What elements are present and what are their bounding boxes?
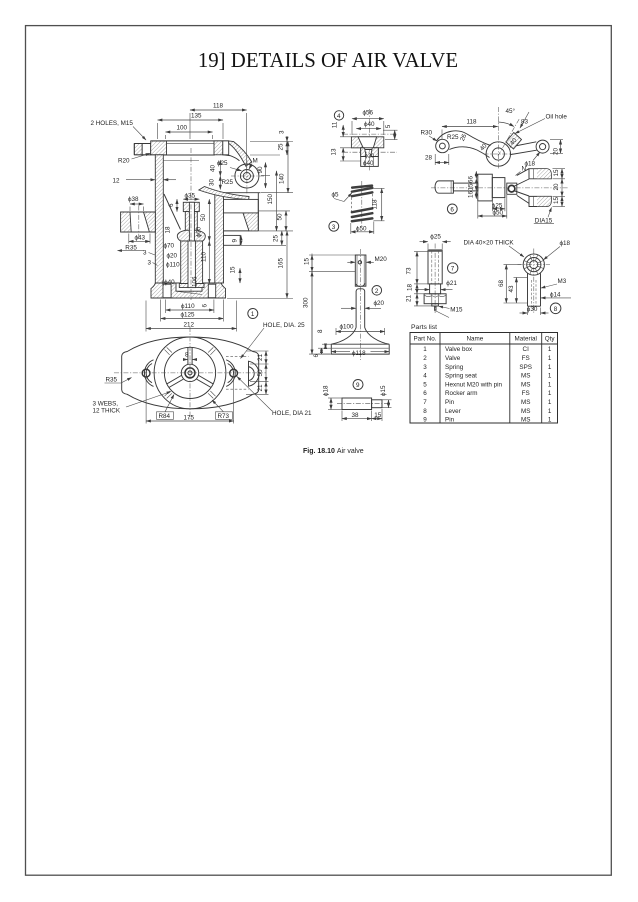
svg-text:20: 20 <box>553 147 560 155</box>
svg-text:30: 30 <box>209 178 216 186</box>
left lobe arcs <box>146 364 152 383</box>
svg-text:6: 6 <box>202 304 209 308</box>
svg-text:13: 13 <box>331 148 338 156</box>
rod <box>428 250 442 284</box>
dim phi50 <box>351 231 374 233</box>
handle <box>435 181 453 193</box>
svg-text:16: 16 <box>467 190 474 198</box>
svg-text:40: 40 <box>479 142 489 152</box>
svg-text:43: 43 <box>508 285 515 293</box>
flange rim top edge <box>151 140 229 142</box>
flat under boss <box>224 192 261 194</box>
lever centerline <box>431 187 568 189</box>
svg-text:M20: M20 <box>375 256 388 263</box>
svg-text:Spring seat: Spring seat <box>445 373 477 380</box>
right arm rib hatched <box>243 213 258 231</box>
skirt outline <box>361 148 379 167</box>
bottom extension lines <box>145 301 147 332</box>
S-curve passage wall hatched <box>199 187 249 200</box>
bolt slot right <box>223 141 229 155</box>
svg-text:15: 15 <box>374 412 382 419</box>
svg-text:300: 300 <box>303 297 310 308</box>
svg-text:ϕ18: ϕ18 <box>323 385 330 396</box>
svg-text:50: 50 <box>200 213 207 221</box>
svg-text:15: 15 <box>467 183 474 191</box>
svg-text:165: 165 <box>278 257 285 268</box>
dim 118 <box>190 109 247 111</box>
svg-text:Qty: Qty <box>545 336 556 343</box>
dim phi56 <box>352 118 384 120</box>
svg-text:3: 3 <box>279 130 286 134</box>
svg-text:68: 68 <box>498 279 505 287</box>
funnel wall right hatched <box>371 148 379 157</box>
break dashed edges <box>351 198 353 212</box>
interior guide collar hatched <box>183 202 199 211</box>
svg-text:ϕ30: ϕ30 <box>527 306 538 313</box>
svg-text:ϕ14: ϕ14 <box>550 291 561 298</box>
svg-text:50: 50 <box>257 369 264 377</box>
svg-text:5: 5 <box>385 124 392 128</box>
svg-text:118: 118 <box>372 199 379 210</box>
interior stem slot <box>189 202 194 241</box>
dim phi25 lever <box>492 208 505 210</box>
svg-text:21: 21 <box>406 294 413 302</box>
svg-text:MS: MS <box>521 417 530 424</box>
svg-text:118: 118 <box>467 119 478 126</box>
spring centerline <box>361 181 363 228</box>
svg-text:MS: MS <box>521 373 530 380</box>
side boss mid circle <box>240 170 253 183</box>
svg-text:ϕ38: ϕ38 <box>128 196 139 203</box>
flange underside right slope <box>223 155 240 161</box>
svg-text:3: 3 <box>332 224 336 231</box>
funnel passage white <box>130 212 149 232</box>
split pin <box>434 306 436 311</box>
svg-text:HOLE, DIA 21: HOLE, DIA 21 <box>272 410 312 417</box>
svg-text:3: 3 <box>148 260 152 267</box>
svg-text:R73: R73 <box>218 413 230 420</box>
svg-text:Material: Material <box>514 336 536 343</box>
dim phi25 line <box>230 168 242 171</box>
left bolt hole <box>142 369 150 377</box>
pin body <box>342 398 372 410</box>
hub circle <box>181 364 198 381</box>
svg-text:R30: R30 <box>421 130 433 137</box>
svg-text:7: 7 <box>423 399 427 406</box>
balloon 6 <box>447 204 457 214</box>
svg-text:ϕ50: ϕ50 <box>493 210 504 217</box>
svg-text:66: 66 <box>467 175 474 183</box>
stem centerline <box>190 148 192 300</box>
svg-text:12 THICK: 12 THICK <box>93 408 121 415</box>
boss centerlines <box>231 175 264 177</box>
rib marks <box>210 391 215 396</box>
svg-text:ϕ118: ϕ118 <box>352 350 366 357</box>
svg-text:100: 100 <box>177 125 188 132</box>
rod chamfer band <box>428 250 442 252</box>
svg-text:3: 3 <box>423 364 427 371</box>
fork lower prong <box>517 195 529 203</box>
svg-text:ϕ5: ϕ5 <box>332 192 340 199</box>
svg-text:18: 18 <box>406 283 413 291</box>
svg-text:8: 8 <box>423 408 427 415</box>
svg-text:R25: R25 <box>447 134 459 141</box>
fork upper bar <box>529 169 551 179</box>
right arm white band <box>224 199 259 213</box>
hidden edge dashes <box>226 356 249 358</box>
top flange left lip hatched <box>134 144 142 155</box>
top plate hatched <box>351 137 383 148</box>
svg-text:ϕ125: ϕ125 <box>181 312 196 319</box>
svg-text:90: 90 <box>257 166 264 174</box>
skirt hole lines <box>365 157 367 167</box>
dim phi50 lever <box>478 215 507 217</box>
balloon 3 <box>329 221 339 231</box>
top flange left raised hatched <box>151 141 167 155</box>
bottom coils <box>352 208 372 221</box>
funnel diagonal <box>164 194 181 230</box>
right link top <box>510 142 537 147</box>
flange seat line <box>163 160 199 162</box>
svg-text:ϕ60: ϕ60 <box>196 226 203 237</box>
dims 21 50 21 <box>265 351 267 364</box>
bottom dim phi125 <box>161 318 224 320</box>
left boss hole <box>440 143 446 149</box>
balloon 4 <box>334 111 343 120</box>
valve centerline <box>359 249 361 360</box>
svg-text:Hexnut M20 with pin: Hexnut M20 with pin <box>445 381 503 388</box>
svg-text:ϕ40: ϕ40 <box>363 160 374 167</box>
svg-text:110: 110 <box>200 251 207 262</box>
seat centerline horizontal lower <box>343 151 397 153</box>
svg-text:175: 175 <box>184 414 195 421</box>
right bolt hole <box>230 369 238 377</box>
disc centerlines <box>518 264 551 266</box>
outer ring circle <box>154 337 226 409</box>
svg-text:ϕ50: ϕ50 <box>356 225 367 232</box>
bolt slot left <box>142 144 151 155</box>
svg-text:6: 6 <box>168 203 175 207</box>
top flange right raised hatched <box>214 141 223 155</box>
rod centerline <box>434 244 436 314</box>
boss horizontal centerline <box>484 153 514 155</box>
flange rim underside <box>163 154 214 156</box>
svg-text:15: 15 <box>553 196 560 204</box>
nut tip <box>432 304 439 306</box>
valve lower stem <box>356 289 365 328</box>
bottom flange hatched <box>151 283 226 298</box>
flange outline pointed oval <box>122 337 259 409</box>
svg-text:M3: M3 <box>558 278 567 285</box>
right boss hole <box>540 144 546 150</box>
disc spokes <box>524 255 543 274</box>
right boss outer <box>536 140 549 153</box>
interior guide lower tube hatched <box>181 241 203 284</box>
svg-text:Fig. 18.10 Air valve: Fig. 18.10 Air valve <box>303 448 364 455</box>
svg-text:5: 5 <box>423 381 427 388</box>
svg-text:ϕ43: ϕ43 <box>135 235 146 242</box>
svg-text:1: 1 <box>548 399 552 406</box>
plan centerlines <box>114 372 266 374</box>
valve base <box>331 344 389 354</box>
side boss tapped hole <box>243 172 250 179</box>
svg-text:ϕ56: ϕ56 <box>363 109 374 116</box>
svg-text:15: 15 <box>230 266 237 274</box>
45 deg line <box>498 119 520 157</box>
svg-text:118: 118 <box>213 103 224 110</box>
dim 100 <box>166 131 213 133</box>
neck <box>430 284 441 294</box>
svg-text:Rocker arm: Rocker arm <box>445 390 478 397</box>
svg-text:ϕ40: ϕ40 <box>364 121 375 128</box>
svg-text:M: M <box>253 158 258 165</box>
fork upper bar hatch <box>537 169 551 178</box>
flange left face <box>133 144 135 155</box>
seat centerline horizontal upper <box>343 133 397 135</box>
svg-text:50: 50 <box>277 213 284 221</box>
svg-text:ϕ100: ϕ100 <box>340 324 355 331</box>
valve stem threaded top <box>355 255 366 286</box>
svg-text:9: 9 <box>423 417 427 424</box>
disc circles <box>523 254 544 275</box>
svg-text:6: 6 <box>423 390 427 397</box>
svg-text:Spring: Spring <box>445 364 464 371</box>
boss vertical centerline <box>497 107 499 169</box>
stem pin hole <box>358 261 361 264</box>
hex nut <box>424 294 446 304</box>
svg-text:7: 7 <box>451 266 455 273</box>
svg-text:15: 15 <box>553 169 560 177</box>
svg-text:R35: R35 <box>125 244 137 251</box>
svg-text:ϕ35: ϕ35 <box>185 192 196 199</box>
45 deg arm <box>506 133 522 150</box>
dim phi118 <box>331 351 350 353</box>
svg-text:MS: MS <box>521 399 530 406</box>
svg-text:ϕ21: ϕ21 <box>446 280 457 287</box>
svg-text:Pin: Pin <box>445 417 455 424</box>
svg-text:ϕ25: ϕ25 <box>217 160 228 167</box>
svg-text:Part No.: Part No. <box>413 336 436 343</box>
right link bottom <box>510 150 536 154</box>
svg-text:DIA 40×20 THICK: DIA 40×20 THICK <box>464 240 515 247</box>
svg-text:CI: CI <box>523 346 530 353</box>
svg-text:ϕ20: ϕ20 <box>167 252 178 259</box>
left boss outer <box>436 139 449 152</box>
svg-text:28: 28 <box>425 155 433 162</box>
svg-text:1: 1 <box>548 408 552 415</box>
right arm face line <box>257 193 259 231</box>
bottom dim 212 <box>146 328 237 330</box>
svg-text:38: 38 <box>352 412 360 419</box>
web spokes <box>187 348 189 365</box>
svg-text:9: 9 <box>356 382 360 389</box>
svg-text:FS: FS <box>522 355 530 362</box>
svg-text:ϕ70: ϕ70 <box>164 243 175 250</box>
svg-text:12: 12 <box>113 178 121 185</box>
svg-text:25: 25 <box>273 234 280 242</box>
svg-text:1: 1 <box>548 355 552 362</box>
mid boss section <box>492 178 505 198</box>
svg-text:Valve box: Valve box <box>445 346 473 353</box>
flange left top edge <box>134 143 150 145</box>
svg-text:Parts list: Parts list <box>411 324 437 331</box>
svg-text:R20: R20 <box>118 158 130 165</box>
svg-text:1: 1 <box>548 381 552 388</box>
svg-text:6: 6 <box>450 206 454 213</box>
svg-text:1: 1 <box>548 364 552 371</box>
svg-text:21: 21 <box>257 353 264 361</box>
funnel wall left hatched <box>361 148 367 157</box>
center boss outer <box>486 142 510 166</box>
svg-text:73: 73 <box>406 267 413 275</box>
center hole <box>185 368 195 378</box>
svg-text:1: 1 <box>548 390 552 397</box>
fork inner verticals <box>533 169 535 179</box>
svg-text:Lever: Lever <box>445 408 461 415</box>
svg-text:150: 150 <box>267 193 274 204</box>
svg-text:4: 4 <box>423 373 427 380</box>
balloon 1 <box>248 309 258 319</box>
svg-text:ϕ110: ϕ110 <box>181 303 195 310</box>
svg-text:3 WEBS,: 3 WEBS, <box>93 401 119 408</box>
svg-text:11: 11 <box>332 121 339 128</box>
svg-text:140: 140 <box>279 173 286 184</box>
stem <box>527 273 529 306</box>
pin centerline <box>337 403 387 405</box>
svg-text:15: 15 <box>304 257 311 265</box>
interior guide tube hatched <box>185 212 197 231</box>
svg-text:2: 2 <box>423 355 427 362</box>
svg-text:2 HOLES, M15: 2 HOLES, M15 <box>91 120 134 127</box>
center boss hole <box>492 148 504 160</box>
bolt ring circle <box>164 347 215 398</box>
svg-text:Name: Name <box>467 336 484 343</box>
neck <box>453 183 477 191</box>
svg-text:(ϕ40: (ϕ40 <box>162 279 175 286</box>
left funnel block hatched <box>121 212 156 232</box>
svg-text:212: 212 <box>184 322 195 329</box>
seat centerline vertical <box>369 109 371 171</box>
balloon 9 <box>353 380 363 390</box>
balloon 7 <box>448 263 458 273</box>
hidden M3 hole dashed <box>531 280 533 306</box>
flange rim inner edge <box>167 143 215 145</box>
svg-text:R25: R25 <box>222 179 234 186</box>
svg-text:1: 1 <box>548 417 552 424</box>
svg-text:HOLE, DIA. 25: HOLE, DIA. 25 <box>263 322 305 329</box>
seat disc center <box>176 283 202 291</box>
svg-text:25: 25 <box>278 143 285 151</box>
balloon 8 <box>550 303 561 314</box>
left dim column valve <box>311 254 313 355</box>
flange underside left <box>134 154 155 156</box>
svg-text:21: 21 <box>257 384 264 392</box>
interior guide seat plate hatched <box>179 284 204 288</box>
svg-text:ϕ25: ϕ25 <box>430 233 441 240</box>
svg-text:ϕ15: ϕ15 <box>380 385 387 396</box>
svg-text:9: 9 <box>232 239 239 243</box>
svg-text:FS: FS <box>522 390 530 397</box>
fork upper prong <box>517 169 529 176</box>
svg-text:M15: M15 <box>450 306 463 313</box>
right wall hatched <box>215 193 224 283</box>
bottom dim phi110 <box>166 309 214 311</box>
fork lower bar <box>529 196 551 206</box>
arm bottom edge <box>449 147 489 158</box>
svg-text:106: 106 <box>192 276 199 287</box>
svg-text:ϕ110: ϕ110 <box>166 262 180 269</box>
svg-text:1: 1 <box>251 311 255 318</box>
pin hole ring <box>507 183 517 194</box>
svg-text:MS: MS <box>521 408 530 415</box>
svg-text:2: 2 <box>375 288 379 295</box>
dim 175 <box>146 420 234 422</box>
svg-text:Pin: Pin <box>445 399 455 406</box>
right lobe arcs <box>228 364 234 383</box>
dim phi40 top <box>356 128 381 130</box>
svg-text:3: 3 <box>143 249 147 256</box>
svg-text:135: 135 <box>191 113 202 120</box>
dim 15 <box>372 418 382 420</box>
arm top edge <box>437 131 491 146</box>
top coils <box>352 186 372 197</box>
dim 135 <box>158 119 223 121</box>
right side section arcs <box>249 361 259 386</box>
flange right neck hatched <box>229 141 252 166</box>
svg-text:45°: 45° <box>506 107 516 115</box>
bottom bolt slot left <box>163 284 171 298</box>
funnel cup white <box>358 137 377 150</box>
svg-text:8: 8 <box>317 329 324 333</box>
dim 118 rocker <box>442 126 498 128</box>
svg-text:ϕ18: ϕ18 <box>525 161 536 168</box>
svg-text:18: 18 <box>165 226 172 234</box>
svg-text:ϕ18: ϕ18 <box>560 240 571 247</box>
svg-text:ϕ20: ϕ20 <box>365 154 374 160</box>
right extension lines <box>250 141 293 143</box>
svg-text:Valve: Valve <box>445 355 461 362</box>
fork lower bar hatch <box>537 197 551 206</box>
dim phi100 <box>336 331 385 333</box>
svg-text:20: 20 <box>553 183 560 191</box>
svg-text:Oil hole: Oil hole <box>546 114 568 121</box>
page title <box>0 49 638 73</box>
svg-text:8: 8 <box>185 351 189 358</box>
valve head flare <box>331 328 389 345</box>
left wall hatched <box>155 155 163 283</box>
svg-text:8: 8 <box>554 306 558 313</box>
dim 38 <box>342 418 372 420</box>
svg-text:ϕ25: ϕ25 <box>492 202 503 209</box>
svg-text:1: 1 <box>423 346 427 353</box>
svg-text:SPS: SPS <box>519 364 532 371</box>
thread dashed lines <box>431 251 433 284</box>
balloon 2 <box>372 286 382 296</box>
svg-text:1: 1 <box>548 346 552 353</box>
funnel centerline <box>138 206 140 240</box>
svg-text:N: N <box>522 166 527 173</box>
right lower band <box>224 235 241 245</box>
pin step <box>372 400 382 408</box>
svg-text:1: 1 <box>548 373 552 380</box>
block <box>478 174 493 201</box>
svg-text:4: 4 <box>337 113 341 120</box>
45 deg arc <box>498 122 514 127</box>
svg-text:R84: R84 <box>159 413 171 420</box>
svg-text:R35: R35 <box>106 377 118 384</box>
svg-text:ϕ20: ϕ20 <box>374 300 385 307</box>
svg-text:40: 40 <box>210 164 217 172</box>
